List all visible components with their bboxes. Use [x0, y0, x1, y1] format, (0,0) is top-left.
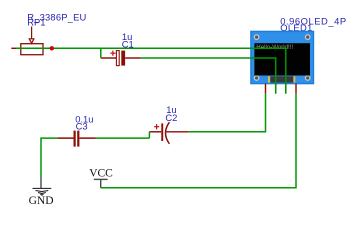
- wire C3 left to GND drop: [41, 138, 57, 178]
- capacitor C3 plate right: [77, 131, 79, 147]
- OLED pin 3: [285, 84, 287, 94]
- capacitor C1 plus sign: [110, 51, 115, 56]
- capacitor C1 pin left: [101, 57, 117, 59]
- resistor RP1 pin 1: [11, 47, 16, 49]
- OLED pin 2: [275, 84, 277, 94]
- svg-text:GND: GND: [29, 195, 54, 207]
- capacitor C1 negative plate: [121, 51, 125, 66]
- OLED mounting hole bottom-left: [254, 75, 260, 81]
- wire C3 right to jog: [96, 137, 149, 139]
- VCC symbol bar: [94, 178, 108, 180]
- ground symbol bars: [33, 188, 51, 195]
- resistor RP1 wiper arrow: [29, 27, 34, 44]
- OLED pad gold right: [293, 76, 295, 82]
- svg-text:C2: C2: [165, 112, 177, 123]
- capacitor C2 pin right: [166, 131, 189, 133]
- OLED screen: [254, 43, 310, 75]
- wire C1 right to OLED pin2: [141, 58, 276, 94]
- svg-text:VCC: VCC: [89, 168, 113, 180]
- VCC symbol stem: [100, 179, 102, 187]
- OLED pin 4: [295, 84, 297, 94]
- svg-text:Hello-World!!!: Hello-World!!!: [256, 44, 293, 51]
- capacitor C2 plus sign: [154, 124, 159, 129]
- OLED mounting hole top-right: [305, 34, 311, 40]
- wire jog C2 to C3 level: [148, 132, 150, 138]
- OLED mounting hole top-left: [254, 34, 260, 40]
- capacitor C1 positive plate: [116, 51, 119, 66]
- svg-text:RP1: RP1: [27, 17, 45, 28]
- OLED pad gold left: [268, 76, 270, 82]
- capacitor C1 pin right: [125, 57, 141, 59]
- wire OLED pin4 down to VCC rail: [101, 94, 296, 188]
- svg-text:C3: C3: [76, 121, 88, 132]
- OLED pin 1: [265, 84, 267, 94]
- capacitor C2 negative plate arc: [166, 122, 170, 144]
- capacitor C3 pin left: [57, 137, 73, 139]
- OLED OLED1 module body: [251, 31, 314, 83]
- wire drop to C1 left: [100, 48, 102, 58]
- ground symbol stem: [40, 177, 42, 188]
- capacitor C2 pin left: [149, 131, 161, 133]
- wire net1 RP1 to OLED pin3: [16, 48, 286, 93]
- OLED mounting hole bottom-right: [305, 75, 311, 81]
- capacitor C3 pin right: [79, 137, 96, 139]
- capacitor C3 plate left: [74, 131, 76, 147]
- junction node at RP1 output: [50, 46, 54, 50]
- OLED connector pad strip: [270, 76, 293, 82]
- capacitor C2 positive plate: [161, 123, 163, 141]
- wire OLED pin1 down-left to C2: [189, 94, 266, 132]
- resistor RP1 body: [21, 44, 43, 55]
